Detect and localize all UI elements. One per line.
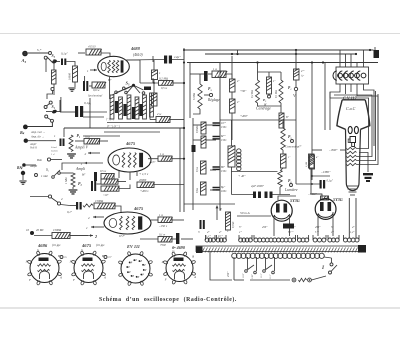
wire C1 right [66, 62, 75, 67]
svg-text:2µF 2000″: 2µF 2000″ [251, 184, 265, 188]
resistor P6 box [294, 68, 300, 80]
wire stage bus 1 [64, 127, 184, 129]
svg-text:P: P [141, 274, 144, 277]
wire choke [231, 172, 233, 195]
resistor below centrage [279, 113, 284, 128]
wire 2uF [232, 194, 254, 196]
svg-text:115″: 115″ [260, 272, 263, 278]
svg-text:P: P [132, 275, 135, 278]
svg-text:H′: H′ [81, 173, 85, 177]
blackcap P3 top [204, 71, 208, 81]
wire V1 top [101, 53, 110, 57]
svg-text:1 w: 1 w [160, 153, 164, 156]
svg-text:20000: 20000 [139, 178, 147, 182]
capacitor 0,1uF [75, 106, 78, 117]
pot P1 [69, 135, 73, 152]
svg-text:1 w: 1 w [159, 214, 163, 217]
CRT base cap [346, 183, 359, 191]
svg-text:+ 1,5 v: + 1,5 v [139, 172, 149, 177]
svg-text:4688: 4688 [130, 46, 141, 51]
wire choke bottom [239, 171, 278, 173]
resistor 0,1uF box [84, 139, 100, 145]
resistor 0,5w box [201, 182, 207, 195]
svg-text:0,1w: 0,1w [196, 167, 199, 172]
svg-text:10⁷″: 10⁷″ [221, 122, 227, 125]
svg-text:I: I [321, 265, 325, 271]
svg-text:8µ″: 8µ″ [221, 186, 226, 189]
resistor box a [281, 154, 287, 168]
resistor +30v [230, 79, 236, 92]
resistor 0,5M 1w a [201, 122, 206, 134]
resistor 750 row [158, 237, 173, 243]
wire main left bus [183, 48, 185, 212]
arrow into V3 k [91, 226, 104, 228]
resistor 0,2M left [256, 80, 260, 103]
svg-text:F: F [164, 278, 167, 282]
svg-text:2 ″: 2 ″ [239, 231, 243, 234]
svg-text:–150 v: –150 v [158, 224, 168, 228]
page bottom rule [0, 307, 400, 309]
resistor 312 box [310, 155, 315, 169]
fuse squiggle [83, 204, 93, 207]
page top rule [0, 33, 400, 35]
svg-text:Ampli V: Ampli V [74, 145, 89, 150]
svg-text:0,1µ″: 0,1µ″ [327, 179, 334, 183]
wire h bus [62, 163, 84, 170]
svg-text:150v: 150v [221, 170, 227, 173]
resistor V3 cath b [101, 186, 119, 191]
svg-text:Schéma d’un oscilloscope (Radi: Schéma d’un oscilloscope (Radio-Contrôle… [99, 296, 237, 303]
svg-text:Bₖ: Bₖ [19, 130, 26, 135]
svg-text:S₅: S₅ [126, 81, 131, 86]
wire col232 [231, 56, 233, 79]
svg-text:P: P [127, 266, 130, 269]
svg-text:+400 v: +400 v [140, 189, 149, 193]
wires connector down [330, 84, 340, 130]
arrow grid V1 [90, 69, 97, 71]
svg-text:5″: 5″ [239, 226, 242, 229]
svg-text:1 mΩ: 1 mΩ [41, 174, 48, 178]
svg-text:2 w: 2 w [157, 112, 161, 116]
svg-text:3: 3 [198, 230, 200, 234]
wire R to ground [74, 82, 76, 87]
svg-text:(···) (···): (···) (···) [106, 118, 114, 121]
wire V2 stems [118, 171, 120, 178]
ground P2 [72, 187, 74, 189]
wire S3 to C1 [57, 61, 61, 63]
svg-text:P₄: P₄ [288, 86, 292, 90]
svg-text:(tri.)ge: (tri.)ge [96, 243, 105, 247]
capacitor 0,1uF in2 [76, 202, 78, 210]
wire r chain [152, 56, 154, 62]
resistor 1w out V3 [158, 217, 173, 223]
tube 5Y3G right [315, 199, 336, 220]
resistor box b [309, 154, 315, 168]
svg-text:130″: 130″ [251, 273, 254, 279]
connector block CRT socket [336, 67, 369, 84]
svg-text:P: P [137, 276, 140, 279]
svg-text:1: 1 [159, 71, 161, 75]
wire bus x220 [219, 63, 221, 211]
svg-text:0,1µ″: 0,1µ″ [61, 52, 68, 57]
svg-text:F: F [72, 278, 75, 282]
wire C12 to bus [172, 50, 184, 60]
svg-text:115″: 115″ [269, 273, 272, 279]
svg-text:5″: 5″ [331, 226, 334, 229]
ground crt right [359, 153, 368, 173]
CRT gun block [350, 137, 356, 143]
wire S2 right [60, 172, 73, 174]
capacitor V3 cath [91, 181, 93, 191]
svg-text:Réglage: Réglage [207, 98, 220, 102]
svg-text:0,1µ ″: 0,1µ ″ [85, 136, 93, 139]
svg-text:1″: 1″ [273, 80, 276, 83]
node junction top bus [295, 49, 297, 51]
svg-text:10000: 10000 [69, 72, 72, 80]
svg-text:0,7 ″: 0,7 ″ [218, 235, 224, 238]
wire v325 [324, 63, 326, 131]
blackcap mid [192, 145, 196, 152]
label box above V1 [86, 49, 102, 55]
terminal in2 [30, 196, 48, 198]
wire socket feeds [184, 203, 235, 205]
wire 312 down [311, 169, 313, 180]
svg-text:P: P [128, 271, 131, 274]
svg-text:4″: 4″ [316, 156, 319, 159]
svg-text:(tri.)ge: (tri.)ge [52, 243, 61, 247]
arrow 1 to V2 [84, 162, 103, 164]
svg-text:P: P [144, 269, 147, 272]
svg-text:S₁*: S₁* [37, 48, 42, 52]
svg-text:1500Ω: 1500Ω [95, 199, 104, 203]
wire mid col links [193, 124, 201, 126]
svg-text:Bℕ: Bℕ [16, 166, 23, 170]
svg-text:0,6 w: 0,6 w [93, 88, 100, 93]
arrow 2 row2 [90, 234, 93, 236]
tap switch contacts [245, 270, 248, 273]
svg-text:Amp. dir →: Amp. dir → [30, 136, 44, 139]
resistor 0,1M right [279, 80, 283, 103]
svg-text:P: P [130, 261, 133, 264]
ground BN [22, 175, 24, 180]
resistor tall 0,1M right of 4690 [226, 212, 231, 230]
svg-text:P: P [69, 260, 72, 264]
svg-text:P: P [143, 264, 146, 267]
svg-text:2: 2 [61, 197, 63, 201]
capacitor 12uF [164, 56, 167, 64]
tube V3 4675 [104, 212, 151, 234]
ground under R1000 [68, 88, 75, 91]
svg-text:2: 2 [88, 216, 90, 220]
resistor 1w 0,1M out [158, 156, 172, 161]
resistor 0,5w 1M [101, 174, 115, 180]
wire bottom row [234, 279, 244, 281]
resistor mid box centrage [267, 77, 272, 94]
resistor +400v [230, 99, 236, 113]
svg-text:5Y3G: 5Y3G [333, 197, 343, 202]
wire p3 top [190, 73, 204, 75]
svg-text:×10″: ×10″ [103, 194, 109, 197]
wire third top bus [187, 62, 378, 64]
svg-text:1500Ω: 1500Ω [214, 74, 221, 77]
svg-text:F: F [28, 278, 31, 282]
CRT neck [346, 129, 361, 183]
svg-text:P: P [139, 260, 142, 263]
terminal ampl [22, 163, 26, 167]
resistor 2w 0,1M [156, 117, 171, 123]
svg-text:80″: 80″ [221, 166, 226, 169]
wire p3 bot [193, 109, 200, 114]
capacitor-resistor bank S5 [110, 95, 114, 119]
svg-text:EV 111: EV 111 [126, 244, 140, 249]
svg-text:1 w: 1 w [213, 68, 217, 71]
svg-text:12µ″: 12µ″ [174, 55, 181, 59]
transformer primary coil [232, 253, 237, 258]
wire -800 [312, 149, 322, 151]
svg-text:– 4,5″: – 4,5″ [148, 161, 156, 164]
socket 4690 [166, 255, 193, 282]
socket 4675 [74, 254, 103, 283]
svg-text:1500Ω: 1500Ω [53, 228, 62, 232]
capacitor 80 a [213, 167, 220, 169]
svg-text:750ℓ: 750ℓ [160, 243, 167, 247]
transformer secondary coils [205, 238, 209, 242]
svg-text:4″″: 4″″ [301, 70, 305, 73]
svg-text:P: P [25, 260, 28, 264]
svg-text:+400″: +400″ [240, 114, 249, 118]
svg-text:P: P [134, 259, 137, 262]
svg-text:1,2″: 1,2″ [350, 231, 355, 234]
svg-text:41513: 41513 [88, 45, 96, 49]
CRT bell [337, 100, 370, 130]
svg-text:4675: 4675 [133, 206, 144, 211]
CRT plates [348, 126, 352, 133]
svg-text:0,1Mℓ: 0,1Mℓ [232, 221, 235, 228]
svg-text:50 m A: 50 m A [240, 211, 250, 215]
wire V1 plate to C12 [127, 59, 164, 62]
svg-text:1,2 ″: 1,2 ″ [206, 235, 212, 238]
svg-text:1: 1 [87, 69, 89, 73]
svg-text:10: 10 [26, 228, 30, 232]
wire second top bus [205, 53, 356, 55]
svg-text:Synchronisat′: Synchronisat′ [88, 95, 103, 98]
svg-text:P₁: P₁ [77, 133, 81, 138]
wire V2 plate out [148, 158, 158, 160]
resistor 1500 2w [94, 203, 115, 209]
svg-text:P₄: P₄ [263, 98, 266, 102]
wire bus drop x237 [237, 50, 239, 54]
svg-text:4″: 4″ [207, 231, 210, 234]
wire 50ma [237, 215, 271, 217]
svg-text:2: 2 [85, 152, 87, 156]
svg-text:–1380″: –1380″ [320, 170, 331, 174]
svg-text:230″: 230″ [227, 271, 230, 277]
CRT neck wires down [348, 198, 350, 238]
svg-text:2 ″: 2 ″ [331, 231, 335, 234]
resistor 0,2M 0,5w [159, 81, 174, 86]
svg-text:1 MΩ: 1 MΩ [65, 177, 68, 184]
wires connector to bus [339, 50, 341, 67]
svg-text:Concentrat′°: Concentrat′° [285, 145, 302, 149]
svg-text:0,5w: 0,5w [196, 188, 199, 193]
socket EV111 [121, 254, 150, 283]
terminal fuse row [292, 278, 296, 282]
pot P6 zig [278, 170, 282, 187]
wire centrage bot [258, 103, 282, 106]
wire v312 [311, 63, 313, 156]
terminal 1mO [35, 174, 38, 177]
capacitor 10-4 b [213, 137, 220, 139]
wire bus x190 [189, 63, 191, 119]
switch S2 [52, 176, 55, 179]
svg-text:+ 40″: + 40″ [238, 174, 246, 178]
svg-text:4″: 4″ [352, 226, 355, 229]
svg-text:½″: ½″ [301, 75, 305, 78]
wire centrage top [258, 71, 282, 73]
resistor 1500 row2 [52, 233, 71, 239]
resistor 0,1M 0,5w [92, 82, 106, 88]
svg-text:G: G [81, 248, 84, 252]
wire bus drop x296 [295, 50, 297, 70]
svg-text:150v: 150v [221, 139, 227, 142]
wire double line right [60, 111, 75, 113]
svg-text:A: A [103, 276, 106, 280]
svg-text:1″: 1″ [288, 156, 291, 159]
svg-text:450″: 450″ [262, 226, 268, 229]
svg-text:M″″: M″″ [220, 135, 226, 138]
svg-text:50 ″″: 50 ″″ [288, 231, 294, 234]
wire bus x193 [192, 118, 194, 210]
svg-text:1: 1 [86, 226, 88, 230]
capacitor 10-4 a [213, 123, 220, 125]
svg-text:0,5MΩ: 0,5MΩ [196, 126, 199, 133]
svg-text:110″: 110″ [242, 272, 245, 278]
svg-text:S₃: S₃ [52, 53, 56, 58]
terminal lower [45, 115, 48, 118]
pot tap centrage [268, 95, 271, 98]
svg-text:5Y3G: 5Y3G [290, 198, 300, 203]
capacitor C1 input [61, 59, 63, 66]
svg-text:5 MΩ: 5 MΩ [192, 93, 196, 100]
svg-text:4″: 4″ [237, 80, 240, 83]
capacitor under V1 [83, 81, 85, 91]
svg-text:Lumière: Lumière [284, 188, 298, 192]
svg-text:20 Mℓ: 20 Mℓ [36, 228, 44, 232]
svg-text:0,5 w: 0,5 w [161, 87, 167, 90]
svg-text:A₀: A₀ [21, 58, 27, 63]
resistor 20000 [137, 182, 154, 188]
svg-text:G: G [37, 248, 40, 252]
svg-text:0,5 w: 0,5 w [100, 170, 106, 173]
svg-text:1 v!: 1 v! [51, 153, 55, 156]
svg-text:(4610): (4610) [133, 53, 143, 57]
svg-text:S₁: S₁ [52, 104, 56, 109]
switch S4 small [144, 87, 151, 91]
svg-text:P₂: P₂ [78, 181, 82, 186]
svg-text:P₅: P₅ [288, 135, 292, 139]
svg-text:150v: 150v [221, 126, 227, 129]
core left end [196, 247, 203, 254]
wire branch to S1 [45, 59, 47, 72]
svg-text:+30″: +30″ [240, 89, 247, 93]
svg-text:4675: 4675 [125, 141, 136, 146]
choke filter [228, 145, 235, 167]
transformer core [196, 246, 364, 252]
svg-text:450″: 450″ [315, 226, 321, 229]
resistor 10000 vertical [73, 66, 78, 82]
resistor vert mid [152, 70, 158, 80]
tube V2 4675 [108, 148, 151, 172]
wire rect tops [278, 196, 296, 200]
wire stage bus 2 [104, 131, 160, 133]
pot P5 zig [281, 128, 285, 150]
svg-text:0,1 w: 0,1 w [159, 234, 165, 237]
tube 5Y3G left [271, 200, 292, 221]
pot P6 V [295, 80, 297, 87]
svg-text:100v: 100v [221, 190, 227, 193]
svg-text:5 ″″: 5 ″″ [315, 231, 320, 234]
wire to bus83 [140, 82, 159, 84]
wire trafo left drop [210, 252, 232, 281]
svg-text:4″: 4″ [237, 101, 240, 104]
svg-text:б7 F′: б7 F′ [119, 235, 125, 238]
resistor 0,5M 1w b [201, 136, 206, 148]
svg-text:2: 2 [219, 207, 222, 212]
wire stage bus 3 [83, 135, 120, 137]
pot tap P3 [209, 93, 212, 96]
svg-text:2: 2 [227, 229, 229, 233]
svg-text:S₂: S₂ [46, 168, 50, 172]
svg-text:0,2 MΩ: 0,2 MΩ [251, 90, 254, 98]
svg-text:B″: B″ [286, 116, 290, 119]
resistor 0,1w box [201, 161, 207, 174]
svg-text:C.a.C: C.a.C [346, 106, 356, 111]
resistor 1M left [71, 173, 75, 187]
svg-text:P₆: P₆ [288, 179, 292, 183]
wire V3 cath net [96, 183, 101, 185]
svg-text:0,1 MΩ: 0,1 MΩ [275, 90, 278, 98]
svg-text:Ampli: Ampli [75, 167, 85, 171]
terminal A input [22, 51, 28, 57]
pot P3 5M [198, 84, 202, 109]
svg-text:0,1M: 0,1M [305, 161, 308, 167]
wire right bus drop [374, 50, 376, 57]
terminal 20Mw [30, 231, 34, 235]
resistor 1w 1500 [212, 71, 227, 78]
svg-text:Amp. Gal →: Amp. Gal → [30, 131, 45, 134]
svg-text:Bob: Bob [37, 158, 42, 162]
svg-text:2: 2 [94, 234, 97, 239]
capacitor 8uF b [213, 188, 220, 190]
svg-text:P₃: P₃ [208, 87, 212, 91]
svg-text:B: B [192, 254, 194, 258]
wire left 83 [125, 60, 140, 83]
svg-text:G′′: G′′ [109, 256, 113, 259]
terminal HT top right [374, 50, 380, 58]
switch S3 [28, 52, 49, 54]
svg-text:A: A [59, 276, 62, 280]
svg-text:G: G [65, 256, 67, 259]
terminal bob [47, 158, 50, 161]
resistor small left [52, 70, 57, 84]
wire small r [53, 59, 55, 70]
switch S1 [51, 87, 54, 90]
svg-text:1: 1 [54, 134, 56, 138]
CRT grid squiggles [347, 147, 357, 149]
svg-text:Volt O: Volt O [30, 147, 37, 150]
svg-text:P: P [161, 260, 164, 264]
svg-text:– 800″: – 800″ [328, 148, 338, 152]
